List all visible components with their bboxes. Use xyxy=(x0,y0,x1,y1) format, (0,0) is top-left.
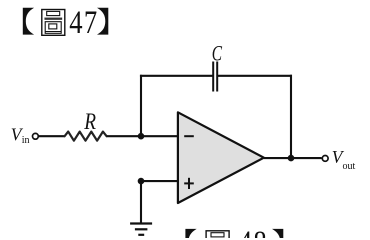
op-amp non-inverting pin mark (plus) xyxy=(184,178,194,189)
CJK glyph 圖 (drawn, clipped) xyxy=(206,231,229,240)
node: non-inverting input junction xyxy=(138,178,145,185)
svg-text:48: 48 xyxy=(239,225,268,238)
resistor R xyxy=(65,132,107,141)
svg-text:47: 47 xyxy=(69,5,98,40)
output terminal (open circle) xyxy=(322,156,328,162)
wire: resistor to inverting input of op-amp xyxy=(107,135,177,137)
left lenticular bracket xyxy=(23,8,34,35)
wire: input terminal to resistor xyxy=(39,135,65,137)
figure title 【圖 48】 (clipped at bottom) xyxy=(185,225,283,240)
right lenticular bracket xyxy=(272,229,283,240)
label Vout xyxy=(332,147,356,172)
input terminal (open circle) xyxy=(33,133,39,139)
svg-text:in: in xyxy=(22,135,30,146)
wire: feedback right vertical down to output xyxy=(290,75,292,158)
svg-text:C: C xyxy=(212,42,223,66)
op-amp U1 (triangle) xyxy=(178,112,264,203)
CJK glyph 圖 (drawn) xyxy=(42,10,65,36)
wire: op-amp output xyxy=(264,157,322,159)
svg-text:out: out xyxy=(343,161,356,172)
wire: feedback top horizontal (right of capacitor) xyxy=(217,75,292,77)
ground xyxy=(130,224,152,235)
right lenticular bracket xyxy=(97,8,108,35)
node: output junction xyxy=(288,155,295,162)
wire: non-inverting input horizontal xyxy=(141,180,177,182)
wire: feedback top horizontal (left of capacitor) xyxy=(140,75,213,77)
node: inverting input junction xyxy=(138,133,145,140)
wire: junction down to ground xyxy=(140,181,142,223)
svg-text:R: R xyxy=(83,108,96,134)
label Vin xyxy=(11,124,30,146)
left lenticular bracket xyxy=(185,229,196,240)
wire: feedback left vertical xyxy=(140,75,142,136)
figure title 【圖 47】 xyxy=(23,5,109,40)
capacitor C xyxy=(213,62,217,92)
op-amp inverting pin mark (minus) xyxy=(184,135,194,137)
